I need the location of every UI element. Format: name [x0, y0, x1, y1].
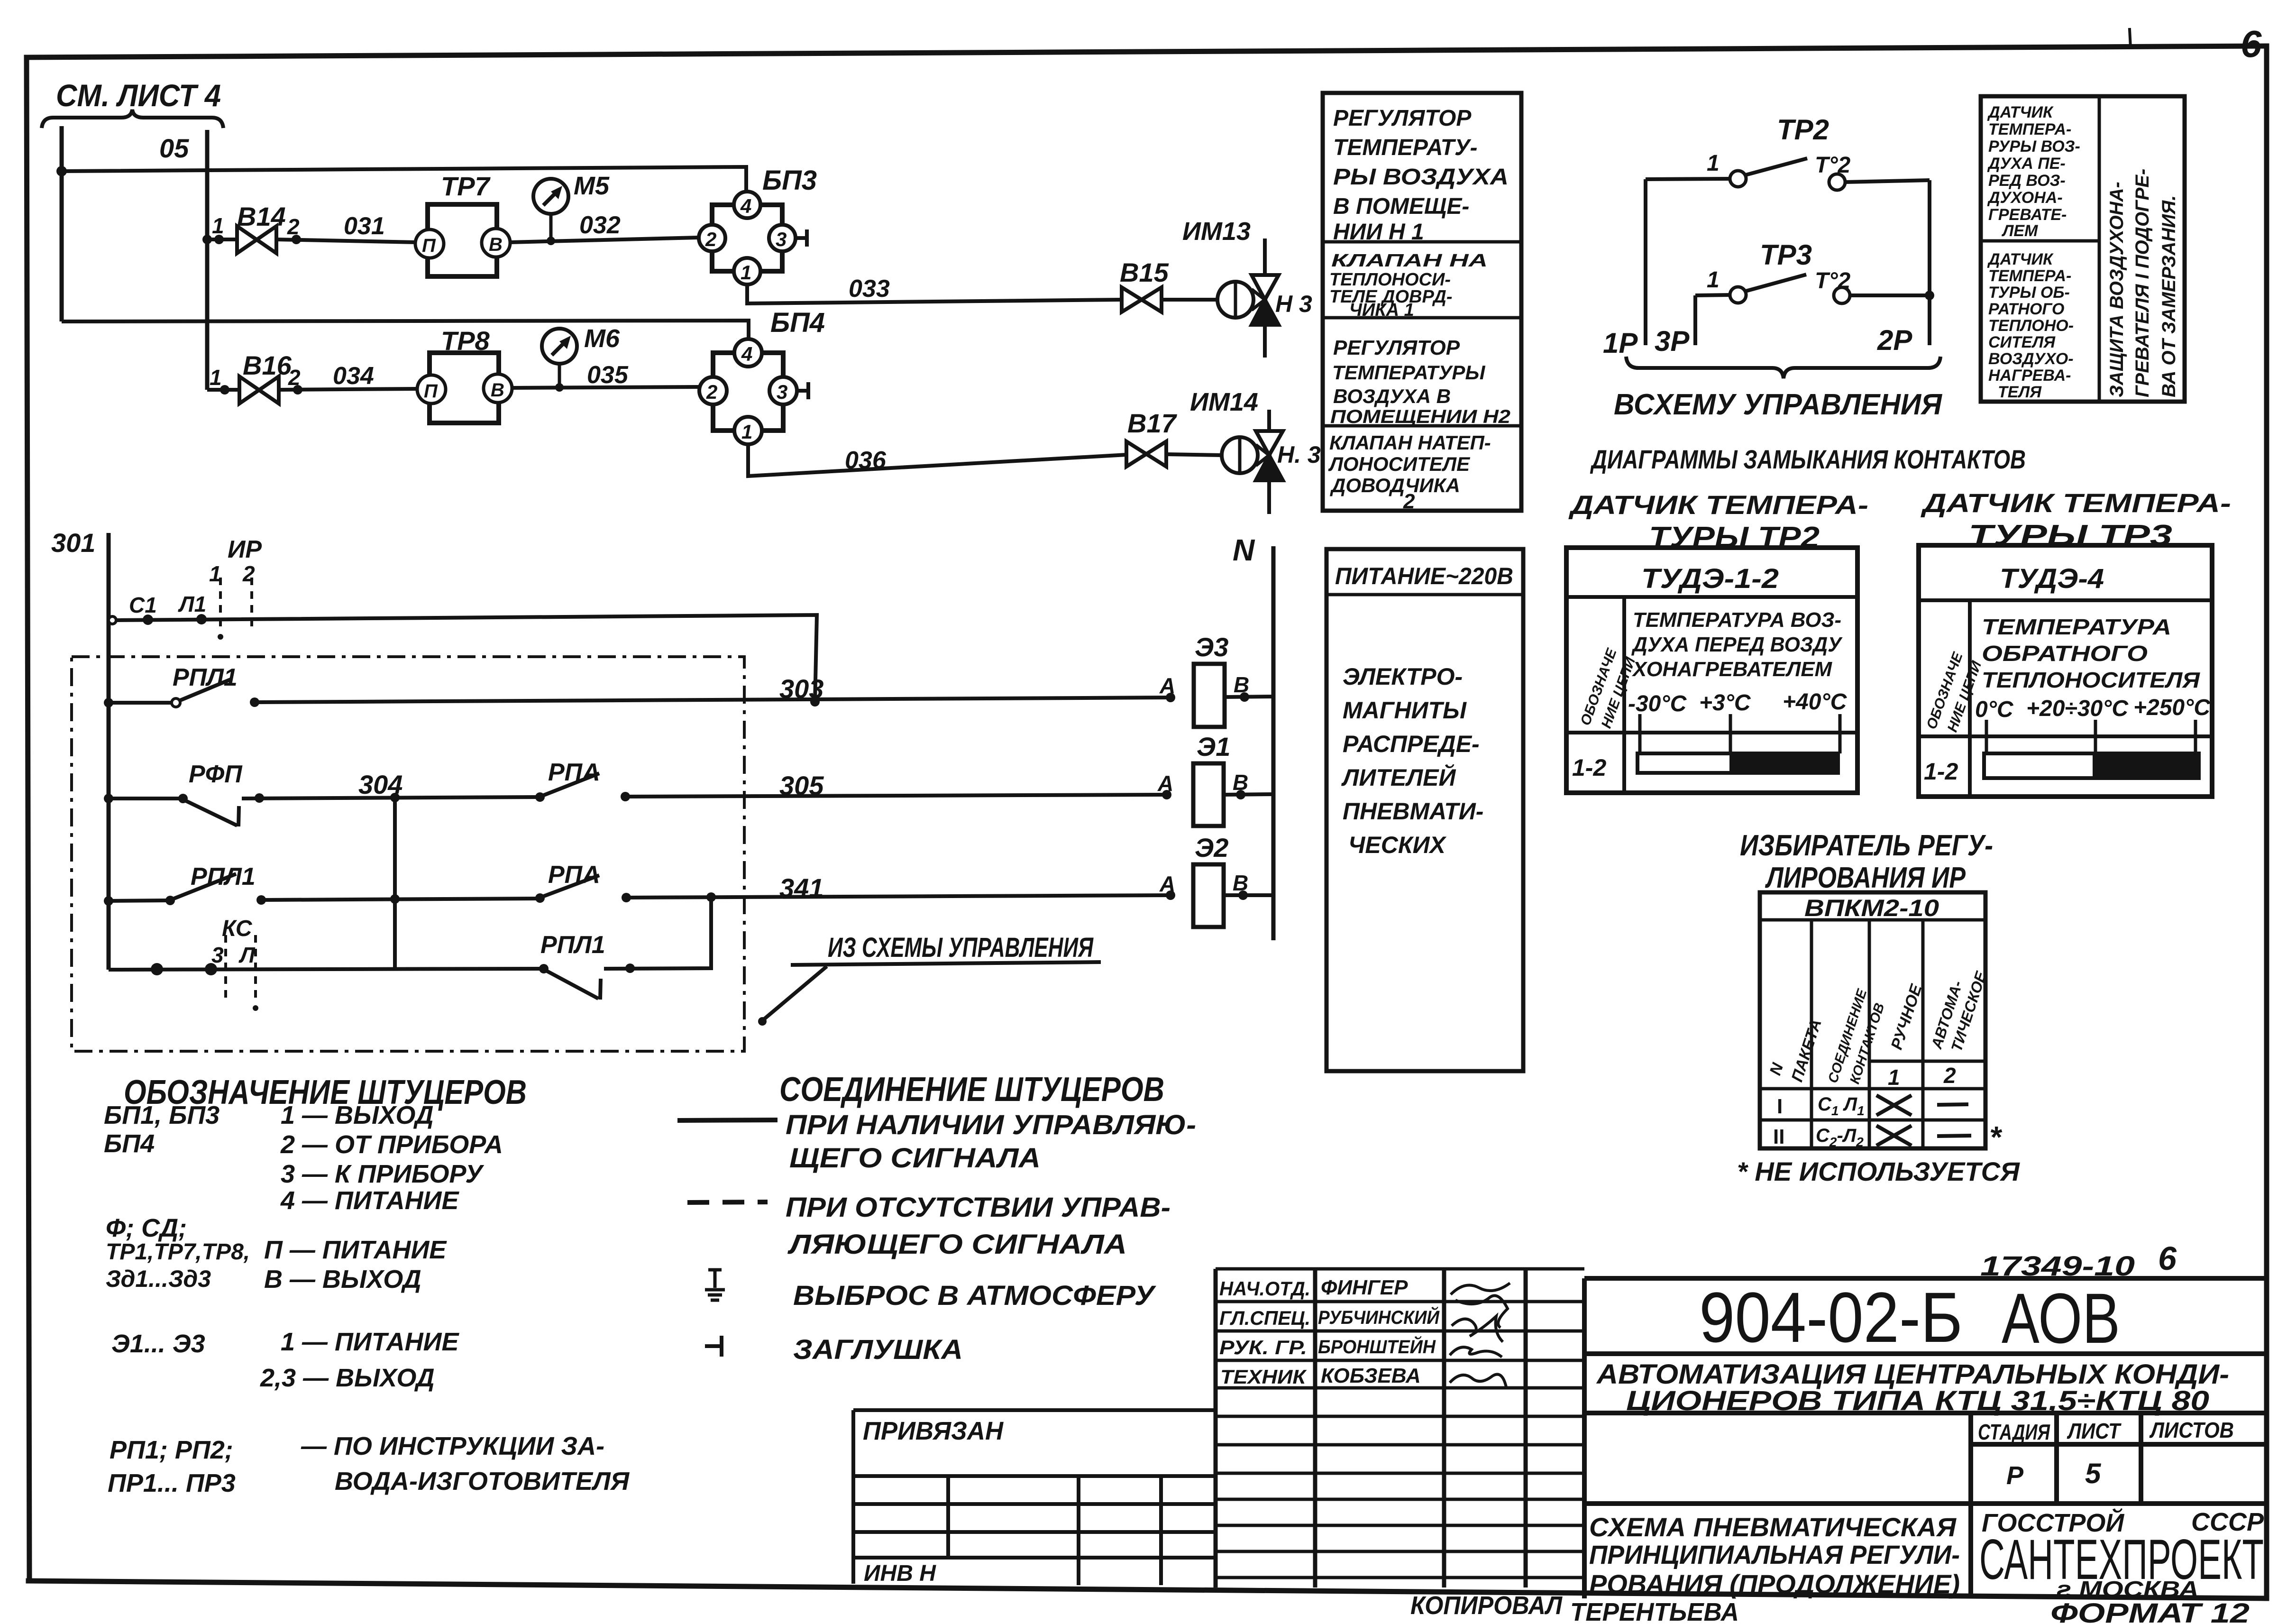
wire 2P with junction	[1877, 180, 1934, 356]
plug on БП3 port 3	[796, 229, 807, 247]
legend dashed line signal absent	[687, 1192, 1171, 1260]
svg-text:Р: Р	[2006, 1461, 2024, 1490]
svg-text:ЗАЩИТА ВОЗДУХОНА-: ЗАЩИТА ВОЗДУХОНА-	[2106, 182, 2127, 397]
svg-text:— ПО ИНСТРУКЦИИ ЗА-: — ПО ИНСТРУКЦИИ ЗА-	[301, 1432, 604, 1460]
svg-text:Т°2: Т°2	[1815, 153, 1851, 178]
wire 035 from TP8 to БП4 port 2	[512, 361, 699, 389]
svg-text:ТР7: ТР7	[441, 171, 491, 201]
relay contact РФП row	[104, 761, 264, 826]
svg-text:ДИАГРАММЫ ЗАМЫКАНИЯ КОНТАКТОВ: ДИАГРАММЫ ЗАМЫКАНИЯ КОНТАКТОВ	[1590, 444, 2026, 474]
svg-text:Э1: Э1	[1197, 732, 1230, 762]
svg-text:ВОЗДУХО-: ВОЗДУХО-	[1988, 350, 2074, 368]
svg-text:СИТЕЛЯ: СИТЕЛЯ	[1988, 333, 2056, 351]
svg-text:2Р: 2Р	[1877, 324, 1912, 356]
svg-text:2: 2	[705, 228, 716, 250]
svg-text:РОВАНИЯ (ПРОДОЛЖЕНИЕ): РОВАНИЯ (ПРОДОЛЖЕНИЕ)	[1589, 1569, 1960, 1599]
legend РП ПР note	[108, 1432, 630, 1497]
svg-text:ТУДЭ-4: ТУДЭ-4	[2000, 563, 2104, 594]
svg-text:МАГНИТЫ: МАГНИТЫ	[1343, 697, 1467, 724]
svg-text:1Р: 1Р	[1603, 327, 1638, 359]
actuator valve ИМ13 normally closed	[1182, 217, 1312, 358]
node 1 at valve B14	[202, 213, 224, 244]
pressure gauge M5	[533, 172, 610, 245]
svg-text:КЛАПАН НАТЕП-: КЛАПАН НАТЕП-	[1329, 431, 1491, 454]
svg-text:033: 033	[849, 275, 890, 303]
thermoregulator TP7	[415, 171, 510, 276]
wire 033	[747, 275, 1121, 303]
svg-text:Э3: Э3	[1195, 632, 1228, 662]
svg-text:БП3: БП3	[762, 165, 817, 196]
svg-text:АОВ: АОВ	[2002, 1278, 2120, 1358]
svg-text:РП1; РП2;: РП1; РП2;	[110, 1436, 233, 1464]
format note	[2050, 1598, 2250, 1624]
svg-text:СТАДИЯ: СТАДИЯ	[1978, 1420, 2050, 1444]
svg-text:I: I	[1777, 1095, 1783, 1118]
actuator valve ИМ14 normally closed	[1190, 388, 1321, 514]
svg-text:ПР1... ПР3: ПР1... ПР3	[108, 1469, 236, 1497]
node N neutral line	[1233, 533, 1273, 940]
svg-text:Ф; СД;: Ф; СД;	[106, 1214, 187, 1242]
svg-text:6: 6	[2241, 23, 2262, 65]
svg-text:ВСХЕМУ УПРАВЛЕНИЯ: ВСХЕМУ УПРАВЛЕНИЯ	[1614, 388, 1943, 421]
svg-text:ДОВОДЧИКА: ДОВОДЧИКА	[1330, 474, 1460, 496]
svg-text:1: 1	[1888, 1065, 1900, 1090]
svg-text:ЭЛЕКТРО-: ЭЛЕКТРО-	[1343, 663, 1463, 690]
wire: lower feed to БП4 port 4	[62, 321, 749, 339]
wire 304 node and РПА contact row 305	[242, 759, 1167, 802]
wire: right feed vertical from sheet 4	[205, 130, 210, 390]
svg-text:ТЕМПЕРАТУ-: ТЕМПЕРАТУ-	[1333, 135, 1477, 160]
svg-text:1: 1	[210, 365, 222, 390]
wire 3P	[1655, 295, 1695, 357]
svg-text:+20÷30°С: +20÷30°С	[2026, 696, 2129, 721]
node 301 supply bus	[51, 528, 109, 970]
svg-text:+40°С: +40°С	[1783, 689, 1848, 715]
svg-text:1: 1	[212, 213, 224, 238]
svg-text:301: 301	[51, 528, 95, 558]
title block frame	[1584, 1278, 2267, 1598]
svg-text:РЕД ВОЗ-: РЕД ВОЗ-	[1988, 172, 2066, 190]
svg-text:РФП: РФП	[189, 761, 243, 788]
legend БП1 БП3 БП4 ports	[104, 1101, 503, 1215]
svg-text:В14: В14	[237, 202, 286, 231]
svg-text:БП1, БП3: БП1, БП3	[104, 1101, 220, 1129]
svg-text:БРОНШТЕЙН: БРОНШТЕЙН	[1318, 1335, 1436, 1358]
svg-text:N: N	[1766, 1060, 1787, 1077]
svg-text:N: N	[1233, 533, 1255, 567]
svg-text:Зд1...Зд3: Зд1...Зд3	[106, 1266, 211, 1292]
svg-text:С1: С1	[129, 593, 157, 617]
svg-text:НИИ Н 1: НИИ Н 1	[1333, 220, 1424, 245]
document number 17349-10	[1980, 1240, 2177, 1282]
node 2 and wire 031	[276, 212, 416, 244]
stage sheet cells	[1978, 1418, 2234, 1490]
svg-text:ПРИ ОТСУТСТВИИ УПРАВ-: ПРИ ОТСУТСТВИИ УПРАВ-	[786, 1192, 1171, 1223]
svg-text:М6: М6	[584, 324, 620, 353]
svg-text:НАГРЕВА-: НАГРЕВА-	[1988, 367, 2071, 385]
svg-text:П: П	[422, 235, 436, 256]
svg-text:031: 031	[344, 212, 385, 240]
copied by note	[1410, 1591, 1739, 1624]
svg-text:4 — ПИТАНИЕ: 4 — ПИТАНИЕ	[280, 1186, 459, 1215]
heading nozzle designations	[124, 1073, 527, 1111]
svg-text:ХОНАГРЕВАТЕЛЕМ: ХОНАГРЕВАТЕЛЕМ	[1631, 658, 1832, 681]
svg-text:Л1: Л1	[178, 592, 206, 616]
svg-text:ПРИ НАЛИЧИИ УПРАВЛЯЮ-: ПРИ НАЛИЧИИ УПРАВЛЯЮ-	[786, 1110, 1196, 1140]
svg-text:А: А	[1159, 673, 1175, 698]
svg-text:5: 5	[2085, 1458, 2102, 1489]
footnote not used	[1737, 1120, 2020, 1186]
svg-text:ПИТАНИЕ~220В: ПИТАНИЕ~220В	[1335, 563, 1513, 589]
svg-text:КЛАПАН НА: КЛАПАН НА	[1331, 251, 1488, 271]
svg-text:ТР3: ТР3	[1760, 239, 1812, 271]
heading regulation selector ИР	[1740, 829, 1993, 894]
title scheme name	[1589, 1512, 1960, 1599]
relay contact РПЛ1 row 341	[104, 863, 266, 906]
svg-text:РУРЫ ВОЗ-: РУРЫ ВОЗ-	[1988, 138, 2080, 156]
svg-text:РПЛ1: РПЛ1	[540, 931, 605, 959]
svg-text:* НЕ ИСПОЛЬЗУЕТСЯ: * НЕ ИСПОЛЬЗУЕТСЯ	[1737, 1156, 2020, 1186]
svg-text:-30°С: -30°С	[1628, 691, 1687, 716]
svg-text:В — ВЫХОД: В — ВЫХОД	[264, 1265, 421, 1294]
node 1 at valve B16	[210, 365, 229, 395]
svg-text:ТЕРЕНТЬЕВА: ТЕРЕНТЬЕВА	[1570, 1598, 1739, 1624]
svg-text:А: А	[1159, 872, 1175, 896]
svg-text:1 — ВЫХОД: 1 — ВЫХОД	[281, 1101, 434, 1129]
heading contact closure diagrams	[1590, 444, 2026, 474]
svg-text:3 — К ПРИБОРУ: 3 — К ПРИБОРУ	[281, 1160, 484, 1188]
signature squiggles	[1450, 1283, 1510, 1389]
svg-text:ПОМЕЩЕНИИ Н2: ПОМЕЩЕНИИ Н2	[1330, 406, 1510, 427]
svg-text:1-2: 1-2	[1924, 758, 1958, 785]
svg-text:ЛЯЮЩЕГО СИГНАЛА: ЛЯЮЩЕГО СИГНАЛА	[787, 1229, 1127, 1260]
svg-text:ТУДЭ-1-2: ТУДЭ-1-2	[1641, 563, 1779, 594]
note CM.ЛИСТ 4 with brace	[42, 78, 223, 128]
svg-text:2 — ОТ ПРИБОРА: 2 — ОТ ПРИБОРА	[280, 1130, 503, 1159]
РПА contact and wire 341 to coil Э2	[261, 861, 1171, 904]
svg-text:ЛИТЕЛЕЙ: ЛИТЕЛЕЙ	[1341, 764, 1456, 791]
svg-text:ЦИОНЕРОВ ТИПА КТЦ 31,5÷КТЦ 8: ЦИОНЕРОВ ТИПА КТЦ 31,5÷КТЦ 80	[1626, 1385, 2209, 1416]
cabinet dash-dot enclosure	[72, 657, 744, 1051]
sheet number 6 top right	[2241, 23, 2262, 65]
plug on БП4 port 3	[797, 382, 808, 399]
svg-text:ТЕЛЯ: ТЕЛЯ	[1998, 383, 2042, 401]
temperature sensor contact TP3	[1695, 239, 1930, 303]
svg-text:ВПКМ2-10: ВПКМ2-10	[1804, 895, 1939, 921]
svg-text:РПА: РПА	[548, 861, 600, 889]
svg-text:2: 2	[1403, 490, 1415, 513]
svg-text:ДАТЧИК: ДАТЧИК	[1987, 103, 2054, 121]
svg-text:Н 3: Н 3	[1275, 291, 1312, 317]
pneumatic relay БП3	[699, 165, 817, 284]
svg-text:ДУХОНА-: ДУХОНА-	[1987, 189, 2063, 207]
legend Э1 Э3 ports	[111, 1328, 459, 1392]
svg-text:Э1... Э3: Э1... Э3	[111, 1330, 205, 1358]
svg-text:ИР: ИР	[228, 536, 262, 563]
wire 304 vertical	[393, 798, 397, 969]
svg-text:2,3 — ВЫХОД: 2,3 — ВЫХОД	[260, 1364, 435, 1392]
svg-text:РАСПРЕДЕ-: РАСПРЕДЕ-	[1343, 731, 1480, 757]
svg-text:05: 05	[159, 133, 189, 163]
svg-text:ЩЕГО СИГНАЛА: ЩЕГО СИГНАЛА	[789, 1143, 1041, 1174]
svg-text:1: 1	[741, 261, 751, 284]
svg-text:РУК. ГР.: РУК. ГР.	[1219, 1336, 1307, 1358]
svg-text:II: II	[1773, 1125, 1784, 1148]
svg-text:РАТНОГО: РАТНОГО	[1988, 300, 2064, 318]
relay contact РПЛ1 bottom	[539, 897, 711, 1000]
svg-text:В: В	[489, 234, 503, 255]
electromagnet coil Э3	[1159, 632, 1273, 727]
svg-text:+3°С: +3°С	[1699, 690, 1751, 716]
svg-text:СОЕДИНЕНИЕ ШТУЦЕРОВ: СОЕДИНЕНИЕ ШТУЦЕРОВ	[779, 1071, 1164, 1109]
signature table	[1216, 1269, 1584, 1587]
svg-text:ВЫБРОС В АТМОСФЕРУ: ВЫБРОС В АТМОСФЕРУ	[793, 1280, 1156, 1311]
table ТУДЭ-4	[1919, 545, 2212, 797]
svg-text:3Р: 3Р	[1655, 325, 1690, 357]
svg-text:1 — ПИТАНИЕ: 1 — ПИТАНИЕ	[281, 1328, 459, 1356]
table ТУДЭ-1-2	[1566, 548, 1857, 793]
svg-text:ТР1,ТР7,ТР8,: ТР1,ТР7,ТР8,	[106, 1239, 250, 1265]
svg-text:РЕГУЛЯТОР: РЕГУЛЯТОР	[1333, 106, 1472, 131]
pneumatic relay БП4	[699, 307, 825, 444]
svg-text:1-2: 1-2	[1572, 754, 1606, 781]
svg-text:304: 304	[358, 770, 402, 799]
svg-text:3: 3	[776, 228, 787, 250]
svg-text:СМ. ЛИСТ 4: СМ. ЛИСТ 4	[56, 78, 221, 113]
svg-text:П — ПИТАНИЕ: П — ПИТАНИЕ	[264, 1236, 447, 1264]
svg-text:ФОРМАТ 12: ФОРМАТ 12	[2050, 1598, 2250, 1624]
wire 032 from TP7 to БП3 port 2	[510, 211, 698, 242]
svg-text:РЕГУЛЯТОР: РЕГУЛЯТОР	[1333, 336, 1460, 359]
svg-text:ТЕПЛОНОСИТЕЛЯ: ТЕПЛОНОСИТЕЛЯ	[1982, 668, 2201, 692]
svg-text:КС: КС	[222, 916, 253, 941]
svg-text:С1 Л1: С1 Л1	[1818, 1094, 1865, 1118]
svg-text:ТЕМПЕРА-: ТЕМПЕРА-	[1988, 120, 2071, 138]
svg-text:3: 3	[211, 943, 224, 967]
svg-text:С2-Л2: С2-Л2	[1816, 1125, 1864, 1149]
svg-text:036: 036	[845, 447, 887, 474]
svg-text:БП4: БП4	[770, 307, 825, 338]
svg-text:ИЗ СХЕМЫ УПРАВЛЕНИЯ: ИЗ СХЕМЫ УПРАВЛЕНИЯ	[828, 932, 1094, 963]
svg-text:ЧЕСКИХ: ЧЕСКИХ	[1348, 832, 1447, 858]
legend Ф СД ТР ЗД ports	[106, 1214, 447, 1294]
svg-text:СХЕМА ПНЕВМАТИЧЕСКАЯ: СХЕМА ПНЕВМАТИЧЕСКАЯ	[1589, 1512, 1957, 1542]
selector ИР contact C1 Л1 row	[109, 536, 817, 702]
node 05 wire to БП3 port 4	[56, 133, 746, 192]
svg-text:ИНВ Н: ИНВ Н	[864, 1561, 936, 1586]
svg-text:ДАТЧИК ТЕМПЕРА-: ДАТЧИК ТЕМПЕРА-	[1568, 490, 1868, 520]
svg-text:М5: М5	[574, 172, 610, 200]
svg-text:ИМ14: ИМ14	[1190, 388, 1258, 416]
svg-text:ТР2: ТР2	[1777, 114, 1829, 146]
legend plug symbol	[705, 1334, 963, 1365]
svg-text:ДАТЧИК ТЕМПЕРА-: ДАТЧИК ТЕМПЕРА-	[1921, 488, 2231, 518]
svg-text:Э2: Э2	[1195, 833, 1228, 862]
svg-text:Л: Л	[238, 943, 256, 967]
svg-text:ЗАГЛУШКА: ЗАГЛУШКА	[793, 1334, 963, 1365]
svg-text:+250°С: +250°С	[2133, 695, 2211, 720]
svg-text:6: 6	[2158, 1240, 2177, 1277]
svg-text:341: 341	[779, 873, 823, 903]
heading sensor TP2	[1568, 490, 1868, 554]
svg-text:ПАКЕТА: ПАКЕТА	[1788, 1017, 1825, 1084]
svg-text:ЛИРОВАНИЯ ИР: ЛИРОВАНИЯ ИР	[1765, 862, 1966, 894]
svg-text:ЛИСТОВ: ЛИСТОВ	[2149, 1418, 2234, 1442]
svg-text:А: А	[1157, 771, 1173, 796]
svg-text:303: 303	[779, 674, 823, 704]
svg-text:*: *	[1989, 1120, 2003, 1154]
svg-text:В15: В15	[1120, 257, 1169, 287]
valve B17	[1126, 408, 1222, 467]
svg-text:ОБРАТНОГО: ОБРАТНОГО	[1982, 641, 2148, 666]
svg-text:ВОДА-ИЗГОТОВИТЕЛЯ: ВОДА-ИЗГОТОВИТЕЛЯ	[335, 1467, 630, 1496]
legend vent to atmosphere symbol	[705, 1270, 1156, 1311]
svg-text:ВА ОТ ЗАМЕРЗАНИЯ.: ВА ОТ ЗАМЕРЗАНИЯ.	[2159, 195, 2179, 397]
power supply description box	[1326, 549, 1523, 1071]
device description box right of schematic	[1323, 93, 1521, 513]
svg-text:ИЗБИРАТЕЛЬ РЕГУ-: ИЗБИРАТЕЛЬ РЕГУ-	[1740, 829, 1993, 862]
wire 303 to coil Э3	[255, 674, 1171, 706]
svg-text:ТЕХНИК: ТЕХНИК	[1220, 1366, 1307, 1388]
svg-text:2: 2	[706, 381, 717, 403]
svg-text:305: 305	[779, 771, 824, 800]
temperature sensor contact TP2	[1646, 114, 1930, 190]
svg-text:КОБЗЕВА: КОБЗЕВА	[1321, 1364, 1421, 1387]
svg-text:ТЕМПЕРАТУРЫ: ТЕМПЕРАТУРЫ	[1332, 361, 1485, 384]
svg-text:2: 2	[287, 214, 300, 239]
svg-text:ЛЕМ: ЛЕМ	[2001, 222, 2038, 240]
valve B16	[207, 350, 292, 404]
svg-text:ГЛ.СПЕЦ.: ГЛ.СПЕЦ.	[1219, 1307, 1310, 1329]
svg-text:034: 034	[333, 362, 374, 390]
svg-text:ИМ13: ИМ13	[1182, 217, 1251, 246]
svg-text:РУЧНОЕ: РУЧНОЕ	[1887, 982, 1925, 1052]
svg-text:ДУХА ПЕ-: ДУХА ПЕ-	[1987, 155, 2066, 173]
svg-text:ГРЕВАТЕ-: ГРЕВАТЕ-	[1988, 206, 2067, 224]
table ВПКМ2-10	[1760, 892, 1990, 1149]
svg-text:2: 2	[242, 561, 255, 586]
svg-text:1: 1	[1707, 267, 1720, 293]
svg-text:В16: В16	[243, 350, 292, 380]
svg-text:ТР8: ТР8	[441, 326, 490, 356]
svg-text:4: 4	[740, 195, 751, 217]
title code 904-02-Б АОВ	[1699, 1277, 2120, 1358]
brace to control circuit	[1614, 357, 1943, 421]
wire 1P	[1603, 179, 1646, 359]
svg-text:4: 4	[741, 343, 752, 365]
svg-text:035: 035	[587, 361, 629, 389]
svg-text:2: 2	[288, 365, 301, 390]
leader from control circuit	[758, 932, 1101, 1026]
svg-text:032: 032	[579, 211, 621, 239]
svg-text:ГРЕВАТЕЛЯ I ПОДОГРЕ-: ГРЕВАТЕЛЯ I ПОДОГРЕ-	[2132, 169, 2153, 397]
svg-text:ТЕПЛОНО-: ТЕПЛОНО-	[1988, 317, 2074, 335]
svg-text:ПРИВЯЗАН: ПРИВЯЗАН	[863, 1417, 1004, 1445]
wire: left feed vertical from sheet 4	[60, 126, 64, 321]
svg-text:1: 1	[741, 421, 752, 443]
svg-text:РУБЧИНСКИЙ: РУБЧИНСКИЙ	[1318, 1306, 1440, 1328]
svg-text:3: 3	[777, 381, 787, 403]
electromagnet coil Э1	[1157, 732, 1273, 826]
svg-text:ЧИКА 1: ЧИКА 1	[1349, 300, 1414, 320]
svg-text:ТУРЫ ОБ-: ТУРЫ ОБ-	[1988, 284, 2070, 302]
svg-text:ЛИСТ: ЛИСТ	[2067, 1419, 2122, 1443]
svg-text:РПЛ1: РПЛ1	[191, 863, 256, 890]
node 2 and wire 034	[279, 362, 417, 395]
svg-text:БП4: БП4	[104, 1129, 155, 1158]
svg-text:ПРИНЦИПИАЛЬНАЯ РЕГУЛИ-: ПРИНЦИПИАЛЬНАЯ РЕГУЛИ-	[1589, 1540, 1960, 1569]
relay contact РПЛ1 row 303	[104, 664, 259, 707]
svg-text:ВОЗДУХА В: ВОЗДУХА В	[1333, 385, 1451, 407]
heading sensor TP3	[1921, 488, 2231, 552]
svg-text:В17: В17	[1127, 408, 1178, 438]
svg-text:Т°2: Т°2	[1815, 268, 1851, 294]
freeze protection description box	[1981, 96, 2185, 402]
title text automation	[1596, 1359, 2229, 1416]
svg-text:РПА: РПА	[548, 759, 600, 786]
svg-text:0°С: 0°С	[1975, 697, 2014, 722]
thermoregulator TP8	[417, 326, 512, 423]
pressure gauge M6	[542, 324, 620, 392]
svg-text:В ПОМЕЩЕ-: В ПОМЕЩЕ-	[1333, 194, 1469, 219]
electromagnet coil Э2	[1159, 833, 1273, 927]
selector КС bottom row	[109, 916, 540, 1011]
organization АОВ cell	[1979, 1508, 2264, 1602]
svg-text:904-02-Б: 904-02-Б	[1699, 1277, 1963, 1357]
svg-text:РПЛ1: РПЛ1	[173, 664, 238, 691]
svg-text:ТЕМПЕРАТУРА: ТЕМПЕРАТУРА	[1982, 615, 2171, 639]
svg-text:ТЕМПЕРА-: ТЕМПЕРА-	[1988, 267, 2071, 285]
svg-text:ФИНГЕР: ФИНГЕР	[1321, 1276, 1408, 1299]
svg-text:РЫ ВОЗДУХА: РЫ ВОЗДУХА	[1333, 165, 1509, 190]
svg-text:ДАТЧИК: ДАТЧИК	[1987, 250, 2054, 268]
svg-text:П: П	[424, 381, 438, 402]
svg-text:В: В	[491, 380, 504, 401]
attachment box ПРИВЯЗАН	[853, 1410, 1216, 1586]
svg-text:ЛОНОСИТЕЛЕ: ЛОНОСИТЕЛЕ	[1328, 453, 1471, 475]
svg-text:ПНЕВМАТИ-: ПНЕВМАТИ-	[1343, 798, 1483, 825]
heading nozzle connections	[779, 1071, 1164, 1109]
svg-text:Н. 3: Н. 3	[1277, 441, 1321, 468]
legend solid line signal present	[677, 1110, 1196, 1174]
wire 036	[748, 444, 1126, 476]
svg-text:2: 2	[1943, 1063, 1956, 1088]
svg-text:КОПИРОВАЛ: КОПИРОВАЛ	[1410, 1591, 1563, 1620]
svg-text:ДУХА ПЕРЕД ВОЗДУ: ДУХА ПЕРЕД ВОЗДУ	[1631, 633, 1843, 656]
svg-text:1: 1	[209, 561, 221, 586]
svg-text:НАЧ.ОТД.: НАЧ.ОТД.	[1219, 1277, 1310, 1300]
svg-text:1: 1	[1707, 151, 1720, 176]
svg-text:ТЕМПЕРАТУРА ВОЗ-: ТЕМПЕРАТУРА ВОЗ-	[1633, 608, 1841, 632]
valve B15	[1120, 257, 1218, 312]
valve B14	[207, 202, 286, 253]
